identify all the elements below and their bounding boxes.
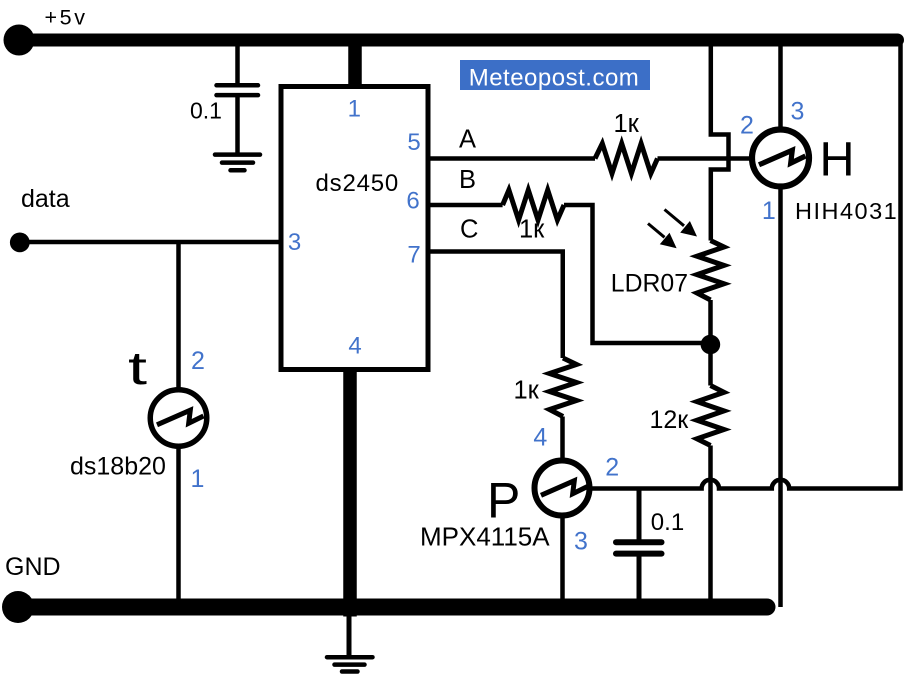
sensor t pin2 label xyxy=(191,347,205,375)
svg-text:P: P xyxy=(487,473,520,529)
sensor H pin3 wire (+5v to H top) xyxy=(778,44,783,131)
sensor H pin3 label xyxy=(791,98,805,126)
+5v rail xyxy=(19,34,898,47)
wire: data terminal to pin 3 xyxy=(20,240,282,245)
svg-text:2: 2 xyxy=(191,347,205,375)
svg-text:4: 4 xyxy=(533,424,547,452)
wire: +5v jog down to LDR (crossing A line) xyxy=(711,44,729,241)
svg-text:1к: 1к xyxy=(514,377,540,405)
pin 4 label xyxy=(348,333,361,360)
resistor R2 1k (B line) xyxy=(503,190,564,220)
+5v label xyxy=(45,6,88,30)
svg-text:+5v: +5v xyxy=(45,6,88,30)
data terminal dot xyxy=(10,233,30,253)
svg-text:1к: 1к xyxy=(519,216,545,244)
svg-text:5: 5 xyxy=(407,129,420,156)
sensor P pin2 label xyxy=(605,454,619,482)
label 0.1 (C2) xyxy=(651,509,684,536)
LDR07 label xyxy=(611,270,688,297)
sensor P circle (MPX4115A) xyxy=(535,461,590,516)
light arrows xyxy=(648,210,697,249)
pin 4 stub (thick, chip to GND) xyxy=(343,370,357,617)
MPX4115A label xyxy=(420,522,550,552)
svg-text:0.1: 0.1 xyxy=(651,509,684,536)
sensor t circle (ds18b20) xyxy=(150,390,207,447)
pin 1 label xyxy=(348,96,361,123)
wire: sensor P pin2 to +5v right edge (with hops) xyxy=(589,44,901,489)
GND label xyxy=(5,553,61,581)
data label xyxy=(21,185,70,213)
wire: resistor 12k to GND xyxy=(708,446,713,601)
wire: resistor R1 to sensor H pin2 xyxy=(658,156,752,161)
wire: sensor t to GND xyxy=(176,447,181,600)
+5v terminal dot xyxy=(4,25,35,56)
HIH4031 label xyxy=(795,198,898,224)
svg-text:7: 7 xyxy=(407,242,420,269)
svg-text:3: 3 xyxy=(574,528,588,556)
ground symbol (bottom) xyxy=(327,657,373,671)
resistor R4 12k xyxy=(697,386,724,446)
svg-text:A: A xyxy=(459,126,476,154)
svg-text:HIH4031: HIH4031 xyxy=(795,198,898,224)
wire: resistor R2 down and right to LDR node xyxy=(564,205,710,343)
wire: P pin2 node down to capacitor C2 xyxy=(637,490,642,540)
svg-text:LDR07: LDR07 xyxy=(611,270,688,297)
wire: pin7 to resistor R3 xyxy=(426,252,563,359)
resistor R1 1k (A line) xyxy=(595,144,658,174)
node A label xyxy=(459,126,476,154)
resistor R3 1k (C line, vertical) xyxy=(550,358,577,417)
pin 7 label xyxy=(407,242,420,269)
sensor H pin2 label xyxy=(740,112,754,140)
node C label xyxy=(460,216,478,244)
svg-text:data: data xyxy=(21,185,70,213)
wire: capacitor C2 to GND xyxy=(637,557,642,601)
sensor t pin1 label xyxy=(191,465,205,493)
photoresistor LDR07 xyxy=(697,241,724,301)
12k label xyxy=(650,406,690,434)
sensor P pin3 label xyxy=(574,528,588,556)
wire: +5v to capacitor C1 xyxy=(235,44,240,84)
svg-text:2: 2 xyxy=(605,454,619,482)
capacitor C2 0.1 plates xyxy=(616,542,662,553)
node B label xyxy=(459,166,476,194)
ds2450 label xyxy=(316,170,400,197)
svg-text:ds2450: ds2450 xyxy=(316,170,400,197)
label 1k (R2) xyxy=(519,216,545,244)
wire: data line down to sensor t xyxy=(176,242,181,389)
sensor t label xyxy=(128,342,147,394)
IC U1 ds2450 body xyxy=(281,87,428,370)
wire: LDR07 to node dot xyxy=(708,300,713,340)
label 1k (R3) xyxy=(514,377,540,405)
svg-text:MPX4115A: MPX4115A xyxy=(420,522,550,552)
pin 3 label xyxy=(288,229,301,256)
svg-text:GND: GND xyxy=(5,553,61,581)
svg-text:6: 6 xyxy=(406,188,419,215)
wire: capacitor C1 to ground xyxy=(235,96,240,153)
sensor H pin1 label xyxy=(762,197,776,225)
svg-text:C: C xyxy=(460,216,478,244)
pin 1 stub (thick, +5v to chip) xyxy=(348,42,362,85)
wire: pin5 to resistor R1 xyxy=(426,156,595,161)
capacitor C1 0.1 plates xyxy=(217,85,259,95)
label 0.1 (C1) xyxy=(190,98,222,124)
sensor P label xyxy=(487,473,520,529)
svg-text:3: 3 xyxy=(288,229,301,256)
sensor P pin4 label xyxy=(533,424,547,452)
sensor H label xyxy=(820,133,855,187)
svg-text:H: H xyxy=(820,133,855,187)
label 1k (R1) xyxy=(614,110,640,138)
sensor H circle (HIH4031) xyxy=(752,130,809,187)
svg-text:t: t xyxy=(128,342,147,394)
GND rail xyxy=(19,599,767,616)
wire: sensor H pin1 to GND xyxy=(778,186,783,607)
svg-text:1: 1 xyxy=(762,197,776,225)
svg-text:Meteopost.com: Meteopost.com xyxy=(469,65,640,92)
svg-text:4: 4 xyxy=(348,333,361,360)
svg-text:ds18b20: ds18b20 xyxy=(70,453,166,481)
wire: GND rail to ground symbol xyxy=(347,613,352,656)
wire: node dot to resistor 12k xyxy=(708,350,713,386)
svg-text:2: 2 xyxy=(740,112,754,140)
svg-text:B: B xyxy=(459,166,476,194)
svg-text:1: 1 xyxy=(191,465,205,493)
svg-text:0.1: 0.1 xyxy=(190,98,222,124)
GND terminal dot xyxy=(2,591,34,623)
svg-text:1к: 1к xyxy=(614,110,640,138)
wire: pin6 to resistor R2 xyxy=(426,203,503,208)
ground symbol (C1) xyxy=(215,155,260,171)
svg-text:12к: 12к xyxy=(650,406,690,434)
wire: sensor P pin3 to GND xyxy=(560,515,565,600)
wire: resistor R3 to sensor P pin4 xyxy=(560,417,565,461)
ds18b20 label xyxy=(70,453,166,481)
Meteopost.com banner xyxy=(460,60,650,92)
svg-text:1: 1 xyxy=(348,96,361,123)
junction dot (LDR/B/12k node) xyxy=(701,335,721,355)
pin 6 label xyxy=(406,188,419,215)
svg-text:3: 3 xyxy=(791,98,805,126)
pin 5 label xyxy=(407,129,420,156)
